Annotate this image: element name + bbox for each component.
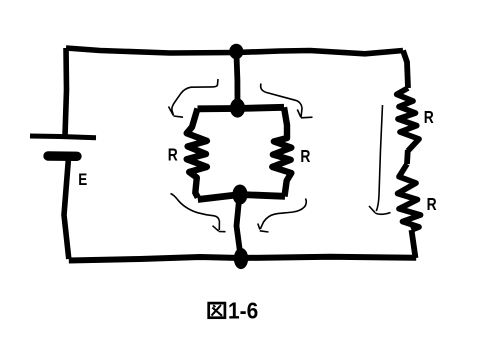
wire: bottom (from bottom-left corner through node D to bottom-right corner) <box>69 257 416 261</box>
wire: battery negative lead down to bottom-left corner <box>64 158 69 259</box>
battery E: negative plate (short thick) <box>48 151 77 161</box>
current arrow (top-left, node B into left resistor) <box>169 79 219 117</box>
wire: node A down to node B <box>236 52 237 108</box>
current arrow (bottom-left, out of left resistor to node D) <box>171 194 226 232</box>
resistor R1 (left of parallel pair) <box>187 109 207 198</box>
svg-text:1-6: 1-6 <box>228 298 258 324</box>
wire: node C down to node D <box>237 195 241 252</box>
svg-text:R: R <box>168 145 178 165</box>
resistor R3 (right branch upper) <box>397 88 419 151</box>
battery E: positive plate (long) <box>30 136 96 138</box>
svg-text:E: E <box>78 170 87 189</box>
wire: left battery top lead <box>65 48 67 136</box>
wire: parallel block bottom side <box>198 195 285 200</box>
wire: parallel block top side <box>198 107 285 109</box>
wire: between right branch resistors <box>404 150 411 164</box>
wire: right branch bottom lead <box>412 230 416 258</box>
svg-text:R: R <box>300 146 310 166</box>
current arrow (top-right, node B into right resistor) <box>261 84 313 118</box>
wire: right branch top lead <box>403 51 408 89</box>
current arrow (bottom-right, out of right resistor to node D) <box>258 199 306 233</box>
node C (parallel block bottom junction) <box>232 185 247 205</box>
node A (top junction) <box>229 44 243 60</box>
node B (parallel block top junction) <box>230 98 245 117</box>
svg-text:R: R <box>427 194 437 214</box>
wire: top side, battery + terminal to node A <box>66 48 236 53</box>
node D (bottom junction) <box>234 248 248 269</box>
current arrow (right branch, downward) <box>369 105 391 214</box>
svg-text:R: R <box>424 107 434 127</box>
caption kanji 図 (drawn glyph) <box>209 303 225 318</box>
resistor R2 (right of parallel pair) <box>272 107 291 196</box>
resistor R4 (right branch lower) <box>398 164 421 230</box>
wire: top side, node A to right branch <box>236 51 403 54</box>
